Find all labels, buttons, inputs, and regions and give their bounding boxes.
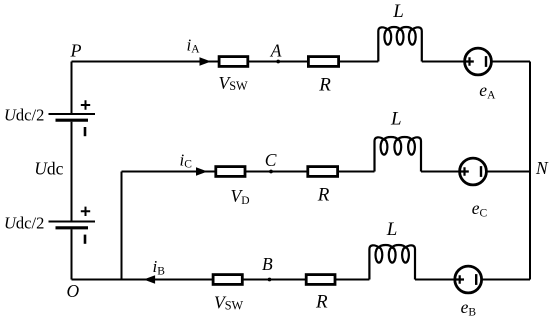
- svg-text:O: O: [67, 281, 80, 301]
- svg-text:A: A: [270, 40, 282, 60]
- svg-text:N: N: [535, 158, 549, 178]
- svg-text:P: P: [70, 41, 82, 61]
- svg-text:R: R: [315, 292, 328, 313]
- svg-text:R: R: [318, 75, 331, 96]
- svg-text:Udc/2: Udc/2: [4, 214, 44, 233]
- svg-text:B: B: [262, 254, 273, 274]
- svg-text:Udc/2: Udc/2: [4, 106, 44, 125]
- svg-text:C: C: [265, 150, 277, 170]
- svg-text:L: L: [392, 1, 404, 22]
- svg-text:Udc: Udc: [34, 158, 63, 178]
- svg-text:R: R: [317, 185, 330, 206]
- svg-text:L: L: [390, 108, 402, 129]
- svg-text:L: L: [386, 219, 398, 240]
